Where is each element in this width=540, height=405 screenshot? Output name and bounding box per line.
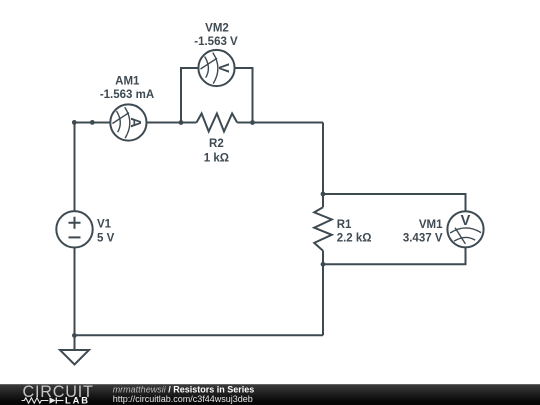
node R2 right junction: [250, 120, 255, 125]
logo resistor zigzag: [22, 398, 49, 403]
node AM1 terminal: [90, 120, 95, 125]
svg-text:mrmatthewsii / Resistors in Se: mrmatthewsii / Resistors in Series: [113, 384, 255, 394]
svg-text:R1: R1: [337, 219, 352, 231]
label R2 1 kOhm: [204, 138, 229, 164]
label VM1 3.437 V: [403, 219, 443, 244]
svg-text:http://circuitlab.com/c3f44wsu: http://circuitlab.com/c3f44wsuj3deb: [113, 394, 253, 404]
voltmeter VM1: [447, 211, 483, 247]
node R2 left junction: [179, 120, 184, 125]
svg-text:5 V: 5 V: [97, 233, 115, 245]
label R1 2.2 kOhm: [337, 219, 372, 244]
wire AM1 right lead: [147, 122, 197, 124]
wire right riser bottom: [322, 251, 324, 336]
ground: [60, 335, 89, 364]
label VM2 -1.563 V: [194, 23, 238, 48]
resistor R2: [197, 114, 238, 132]
svg-text:VM1: VM1: [419, 219, 443, 231]
wire left rail top segment: [74, 123, 76, 212]
svg-text:2.2 kΩ: 2.2 kΩ: [337, 232, 372, 244]
wire right riser top: [322, 123, 324, 208]
resistor R1: [314, 207, 332, 250]
voltage source V1: [56, 211, 92, 247]
svg-text:VM2: VM2: [205, 23, 229, 35]
wire VM2 right branch: [234, 68, 252, 123]
label V1 5 V: [97, 219, 115, 245]
ammeter AM1: [110, 104, 146, 140]
label AM1 -1.563 mA: [100, 75, 154, 101]
wire top right segment: [237, 122, 323, 124]
wire VM1 bottom branch: [323, 247, 466, 264]
svg-text:1 kΩ: 1 kΩ: [204, 152, 229, 164]
node top-left corner: [72, 120, 77, 125]
wire left rail bottom segment: [74, 248, 76, 336]
logo diode: [50, 397, 64, 403]
wire VM2 left branch: [181, 68, 199, 123]
voltmeter VM2: [198, 50, 234, 86]
node bottom-left junction: [72, 333, 77, 338]
svg-text:A: A: [127, 117, 143, 128]
svg-text:V: V: [215, 63, 231, 73]
node R1 top junction: [321, 192, 326, 197]
svg-text:-1.563 V: -1.563 V: [194, 36, 238, 48]
svg-text:-1.563 mA: -1.563 mA: [100, 89, 154, 101]
svg-text:R2: R2: [209, 138, 224, 150]
svg-text:AM1: AM1: [115, 75, 140, 87]
svg-text:V: V: [461, 213, 471, 229]
footer bar: [0, 384, 540, 405]
svg-text:3.437 V: 3.437 V: [403, 232, 443, 244]
wire AM1 left lead: [75, 122, 111, 124]
svg-text:V1: V1: [97, 219, 112, 231]
node R1 bottom junction: [321, 262, 326, 267]
wire VM1 top branch: [323, 194, 466, 211]
wire bottom: [75, 334, 324, 336]
svg-text:LAB: LAB: [65, 395, 90, 405]
